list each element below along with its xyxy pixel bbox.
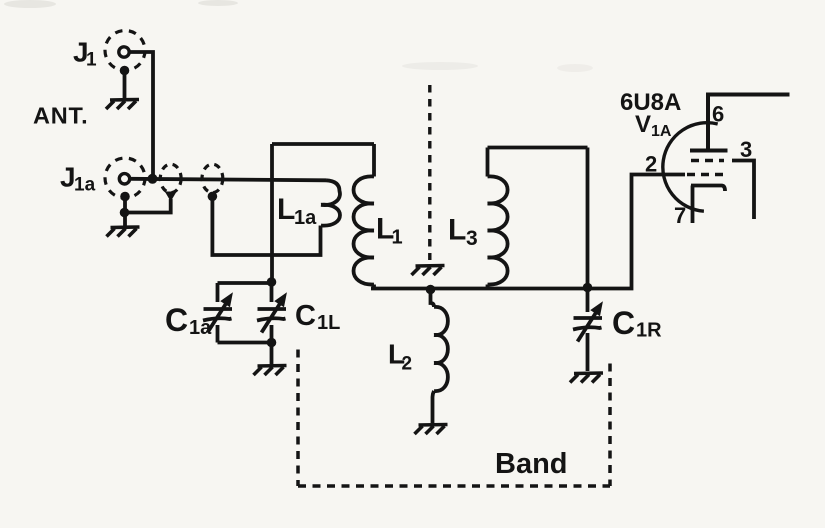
svg-text:1: 1 <box>86 50 97 71</box>
svg-text:1: 1 <box>392 227 403 249</box>
svg-text:2: 2 <box>402 354 413 375</box>
svg-text:C: C <box>612 305 635 341</box>
svg-text:ANT.: ANT. <box>33 103 88 129</box>
svg-text:1a: 1a <box>189 317 212 339</box>
svg-text:1A: 1A <box>651 123 672 140</box>
svg-text:Band: Band <box>495 448 568 480</box>
svg-text:1R: 1R <box>636 320 662 342</box>
svg-text:1L: 1L <box>317 312 340 334</box>
svg-text:C: C <box>165 302 188 338</box>
svg-text:6: 6 <box>712 102 724 127</box>
svg-text:V: V <box>635 111 651 138</box>
svg-text:1a: 1a <box>74 175 96 196</box>
svg-text:3: 3 <box>466 227 478 250</box>
svg-text:3: 3 <box>740 137 752 162</box>
svg-text:2: 2 <box>645 152 657 177</box>
svg-text:L: L <box>448 214 466 247</box>
svg-text:C: C <box>295 300 316 332</box>
svg-text:L: L <box>277 193 295 226</box>
svg-text:7: 7 <box>674 203 686 228</box>
svg-text:1a: 1a <box>294 207 317 229</box>
